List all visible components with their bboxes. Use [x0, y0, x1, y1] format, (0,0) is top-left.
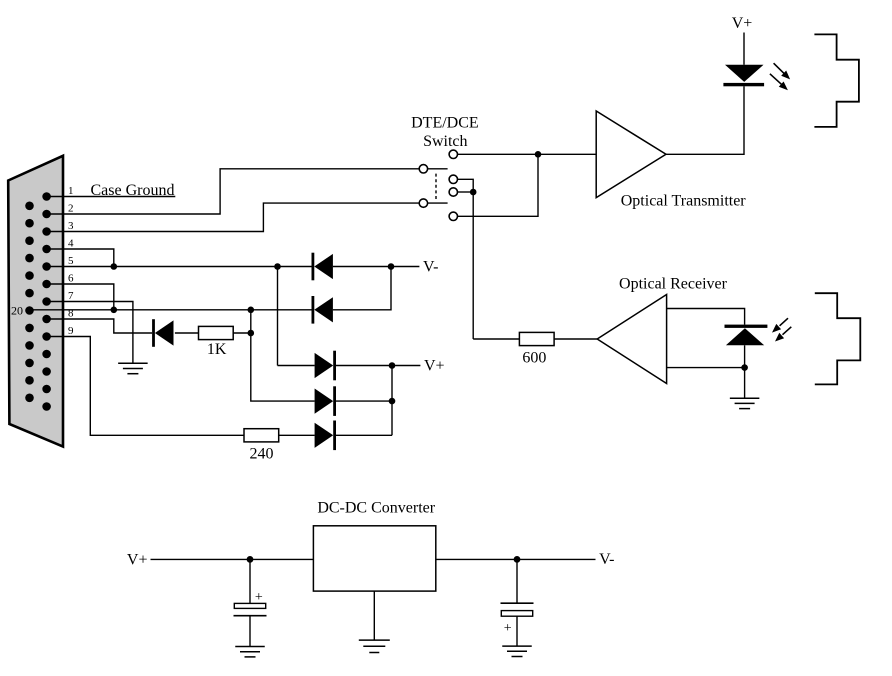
capacitor C2 positive plate: [501, 611, 532, 617]
diode D6 (row5): [315, 421, 336, 451]
ground C1: [235, 647, 265, 657]
wire D1 to V-: [333, 266, 420, 268]
wire R2 to U2 output: [554, 338, 597, 340]
wire U3 output to V-: [436, 558, 596, 560]
LED light arrow 1: [774, 63, 785, 74]
diode D1 (row1, V- clamp): [312, 253, 333, 281]
photodiode D8 cathode bar: [725, 325, 768, 328]
photodiode D8 body: [726, 328, 764, 345]
switch S1 throw 2 contact: [449, 175, 457, 183]
wire pin9 to resistor R3 240: [47, 337, 244, 436]
wire row3/row4/row5 right vertical: [391, 366, 393, 436]
ground U3 case: [359, 640, 390, 652]
diode D4 (row3, V+ row): [315, 351, 336, 381]
switch S1 throw 1 contact: [449, 150, 457, 158]
ground C2: [502, 646, 532, 656]
svg-text:1K: 1K: [207, 341, 227, 358]
wire throw2 to receiver node: [458, 179, 474, 192]
junction row1 / row3 branch: [274, 263, 281, 270]
wire LED anode to V+: [743, 33, 745, 65]
wire pin1 case ground: [47, 196, 176, 198]
LED light arrow 2: [770, 74, 782, 85]
wire C1 top: [249, 559, 251, 603]
switch S1 throw 4 contact: [449, 212, 457, 220]
wire 1K node down to row4: [251, 333, 315, 401]
wire pin20 net down to 1K node: [250, 310, 252, 333]
switch S1 pole A blade: [428, 168, 448, 170]
ground photodiode: [730, 398, 760, 408]
svg-text:+: +: [504, 621, 512, 636]
wire D3 to resistor R1: [175, 332, 199, 334]
wire throw3 to receiver node: [458, 191, 474, 193]
svg-text:DC-DC Converter: DC-DC Converter: [317, 499, 435, 516]
capacitor C1 positive plate: [234, 603, 265, 608]
svg-text:6: 6: [68, 272, 74, 284]
wire R3 to diode D6: [279, 434, 315, 436]
svg-text:V+: V+: [424, 357, 445, 374]
svg-text:Optical Receiver: Optical Receiver: [619, 276, 728, 293]
junction pin4/pin5: [111, 263, 118, 270]
wire receiver node down to 600: [472, 192, 474, 339]
LED D7 body: [725, 65, 764, 82]
wire D2 right up to row1: [333, 267, 391, 310]
junction row4 right: [389, 398, 396, 405]
junction 1K node: [248, 330, 255, 337]
wire 600 row: [473, 338, 519, 340]
connector J1 pin holes row pins 1-13: [42, 192, 51, 411]
wire U1 output to LED: [666, 86, 744, 154]
DC-DC converter module U3: [313, 526, 435, 591]
wire U2 input- to photodiode anode: [667, 367, 745, 369]
junction pin6/pin20: [111, 307, 118, 314]
wire U3 case to ground: [373, 591, 375, 640]
svg-text:Optical Transmitter: Optical Transmitter: [621, 193, 747, 210]
diode D2 (row2): [312, 296, 333, 324]
junction transmitter input: [535, 151, 542, 158]
wire pin6 down to pin20 net: [47, 284, 114, 310]
svg-text:1: 1: [68, 185, 74, 197]
junction photodiode anode: [741, 364, 748, 371]
junction C1 tap: [247, 556, 254, 563]
junction pin20 net / 1K branch: [248, 307, 255, 314]
svg-text:600: 600: [522, 350, 546, 367]
op-amp U2 optical receiver buffer: [597, 295, 666, 384]
svg-text:V-: V-: [599, 551, 614, 568]
capacitor C2 negative plate: [501, 602, 534, 604]
switch S1 pole B contact: [419, 199, 427, 207]
switch S1 pole A contact: [419, 165, 427, 173]
wire D4 to V+: [336, 365, 420, 367]
junction row3 right: [389, 362, 396, 369]
wire pin4 down to pin5 net: [47, 249, 114, 267]
fiber connector (transmitter side): [814, 34, 859, 127]
wire C2 bottom to ground: [516, 616, 518, 646]
switch S1 linkage (dashed): [435, 174, 437, 201]
svg-text:V-: V-: [423, 258, 438, 275]
connector J1 pin holes row pins 14-25: [25, 202, 34, 403]
wire C1 bottom to ground: [249, 616, 251, 647]
wire pin3 to DTE/DCE switch pole B: [47, 203, 420, 231]
switch S1 pole B blade: [428, 202, 448, 204]
svg-text:7: 7: [68, 290, 74, 302]
fiber connector (receiver side): [815, 293, 861, 384]
photodiode light arrow 1: [780, 318, 788, 326]
svg-text:20: 20: [11, 303, 23, 317]
connector J1 DB-25 shell: [8, 156, 63, 447]
svg-text:240: 240: [250, 446, 274, 463]
resistor R3 240: [244, 429, 279, 442]
wire V+ input to U3: [151, 558, 314, 560]
resistor R1 1K: [199, 326, 234, 339]
wire D6 right up to row4: [336, 434, 392, 436]
svg-text:4: 4: [68, 237, 74, 249]
LED D7 cathode bar: [723, 83, 764, 86]
diode D3 (series with 1K): [152, 319, 173, 347]
wire pin8 to diode D3: [47, 319, 152, 333]
junction C2 tap: [514, 556, 521, 563]
wire row1 down to row3 (V+ row): [277, 267, 279, 366]
wire C2 top: [516, 559, 518, 603]
junction row1 / row2 right: [388, 263, 395, 270]
wire throw4 up to transmitter input: [458, 154, 539, 216]
svg-text:Switch: Switch: [423, 133, 467, 150]
svg-text:3: 3: [68, 220, 74, 232]
svg-text:5: 5: [68, 255, 74, 267]
wire pin2 to DTE/DCE switch pole A: [47, 169, 420, 214]
capacitor C1 negative plate: [234, 615, 267, 617]
wire pin5 net (V- diode row): [47, 266, 312, 268]
wire throw1 to transmitter input: [458, 153, 597, 155]
wire D5 right: [336, 400, 392, 402]
wire U2 input+ to photodiode cathode: [667, 309, 745, 325]
svg-text:2: 2: [68, 202, 74, 214]
svg-text:DTE/DCE: DTE/DCE: [411, 115, 479, 132]
switch S1 throw 3 contact: [449, 188, 457, 196]
svg-text:V+: V+: [127, 551, 148, 568]
junction receiver node: [470, 189, 477, 196]
ground pin7: [118, 363, 147, 373]
diode D5 (row4): [315, 386, 336, 416]
wire pin20 net (row 2): [30, 309, 313, 311]
wire row3 left segment: [278, 365, 315, 367]
svg-text:V+: V+: [732, 15, 753, 32]
wire photodiode anode down: [744, 345, 746, 398]
wire R1 to junction: [233, 332, 251, 334]
resistor R2 600: [519, 332, 554, 345]
wire pin7 to ground: [47, 302, 133, 364]
svg-text:9: 9: [68, 325, 74, 337]
photodiode light arrow 2: [783, 327, 792, 335]
op-amp U1 optical transmitter buffer: [596, 111, 666, 198]
